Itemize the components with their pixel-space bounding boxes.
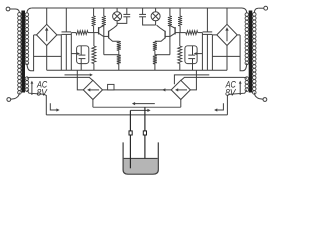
svg-text:8V: 8V (37, 88, 48, 98)
wire between R5 R6 (118, 51, 120, 55)
arrow current (ac8v right) (174, 75, 209, 84)
resistor R5' (emitter upper) (153, 41, 157, 50)
capacitor C1 top lead (65, 8, 67, 32)
wire AC8V feed (27, 77, 93, 80)
resistor R6 (emitter lower) (117, 55, 121, 64)
transformer T2 primary winding (253, 13, 256, 17)
wire B1 right corner (57, 35, 61, 70)
transistor Q1 base lead (94, 32, 99, 34)
wire B3 bottom corner (226, 46, 228, 71)
transistor Q4 emitter (155, 38, 165, 41)
transformer T1 primary winding (18, 13, 22, 17)
resistor R6' (emitter lower) (153, 55, 157, 64)
resistor R4 top lead (93, 33, 95, 46)
transformer T2 secondary winding (main) (245, 13, 249, 16)
capacitor C2 top lead (126, 8, 128, 14)
arrowhead on link (162, 88, 165, 91)
capacitor C3 bottom lead (206, 34, 208, 70)
transformer T2 core (249, 11, 253, 93)
rectifier B2 (diamond) (83, 80, 102, 99)
rectifier B3 (diamond) (217, 24, 237, 45)
wire top bus (32, 7, 242, 9)
wire AC8V bottom lead (right) (227, 90, 246, 115)
arrow inside B2 (89, 89, 99, 91)
resistor R5 (emitter upper) (117, 41, 121, 50)
wire emitter tap (104, 54, 119, 56)
capacitor C2 bottom lead (117, 17, 127, 24)
arrow current (left staircase) (50, 103, 56, 110)
wire B1 left corner (34, 34, 37, 36)
wire B2-B2' link (103, 89, 172, 91)
transistor Q1 collector (99, 25, 104, 28)
lamp L1 (113, 12, 122, 21)
capacitor C3 (203, 31, 213, 33)
wire B4 bottom to rail1 (180, 100, 182, 108)
wire R1' bottom to node (179, 26, 181, 33)
wire AC8V bottom lead to rail (27, 90, 46, 115)
transistor Q2 base lead (104, 35, 109, 37)
resistor R4 (92, 46, 96, 64)
wire R2 node vertical (103, 26, 105, 55)
wire primary top lead (right) (254, 8, 258, 13)
wire secondary top to top bus (27, 8, 32, 13)
electrode left contact (129, 131, 132, 135)
fuse on link (108, 84, 114, 90)
tank (vessel) (123, 142, 158, 174)
resistor R1 (92, 16, 96, 26)
transistor Q3 collector (170, 25, 175, 28)
wire rail1 (93, 106, 181, 108)
terminal input bottom-right (263, 98, 267, 102)
wire B1 top to bus (46, 8, 48, 24)
arrow current rail2 (130, 109, 148, 111)
transistor Q1 emitter (99, 33, 104, 36)
transistor Q3 base bar (174, 27, 176, 34)
resistor R2 top lead (103, 8, 105, 16)
capacitor C4 (139, 13, 146, 15)
arrow AC voltage (left) (31, 83, 33, 95)
resistor R2' top lead (169, 8, 171, 16)
resistor R6 bottom lead (118, 64, 120, 70)
trimmer plates (79, 54, 86, 56)
resistor R1' (178, 16, 182, 26)
wire B1 strap (34, 55, 62, 57)
wire secondary top to bus (right) (242, 8, 247, 13)
wire primary top lead (16, 9, 20, 13)
trimmer wiper arrow' (196, 53, 203, 55)
wire B3 top to bus (226, 8, 228, 24)
lamp L2 bottom lead (155, 21, 157, 25)
capacitor C1 bottom lead (65, 34, 67, 70)
transistor Q2 emitter (109, 38, 119, 41)
transistor Q4 base bar (164, 31, 166, 39)
trimmer wiper arrow (71, 53, 78, 55)
tank liquid (124, 159, 158, 174)
resistor R4 bottom lead (93, 64, 95, 71)
transformer T1 secondary winding (main) (25, 13, 29, 16)
lamp L2 (151, 12, 160, 21)
trimmer plates' (188, 54, 195, 56)
resistor R4' bottom lead (179, 64, 181, 71)
wire secondary bottom lead (right) (240, 35, 247, 71)
wire electrode left (129, 110, 131, 168)
resistor R3' (base, horizontal) (180, 32, 186, 34)
transistor Q1 base bar (98, 27, 100, 34)
transformer T1 winding AC 8V (25, 77, 29, 81)
transistor Q4 base lead (165, 35, 170, 37)
resistor R2' (168, 16, 172, 26)
wire rail2 (46, 114, 227, 116)
terminal input bottom-left (7, 98, 11, 102)
terminal input top-left (6, 7, 10, 11)
capacitor C4 top lead (142, 8, 144, 14)
transistor Q4 collector (157, 25, 166, 31)
wire B3 right corner (237, 34, 240, 36)
trimmer box' (rounded enclosure) (185, 46, 197, 64)
transistor Q3 base lead (175, 32, 180, 34)
wire B4 right corner riser (190, 70, 196, 90)
capacitor C4 bottom lead (143, 17, 156, 25)
wire secondary bottom lead (27, 35, 34, 71)
electrode right contact (143, 131, 146, 135)
wire R2' node vertical (169, 26, 171, 55)
wire emitter tap' (155, 54, 170, 56)
wire B2 bottom to rail1 (92, 100, 94, 108)
lamp L2 top lead (155, 8, 157, 12)
rectifier B1 (diamond) (37, 24, 57, 45)
resistor R2 (102, 16, 106, 26)
wire mid rail (47, 69, 227, 71)
arrow current (ac8v left) (65, 74, 91, 76)
capacitor C2 (123, 13, 130, 15)
resistor R4' (178, 46, 182, 64)
wire R3 left riser (70, 33, 72, 71)
transistor Q3 emitter (170, 33, 175, 36)
terminal input top-right (264, 6, 268, 10)
arrow inside B3 (226, 30, 228, 42)
capacitor C3 top lead (206, 8, 208, 32)
wire B1 bottom corner (46, 46, 48, 71)
transistor Q2 base bar (108, 31, 110, 39)
wire R3' right riser (201, 33, 203, 71)
svg-text:8V: 8V (225, 88, 236, 98)
resistor R3 (base, horizontal) (71, 32, 76, 34)
arrow current rail1 (134, 103, 155, 105)
arrow inside B1 (46, 30, 48, 42)
arrow AC voltage (right) (239, 83, 241, 95)
lamp L1 bottom lead (116, 21, 118, 25)
lamp L1 top lead (116, 8, 118, 12)
wire R1 bottom to node (93, 26, 95, 33)
trimmer box (rounded enclosure) (77, 46, 89, 64)
trimmer bottom lead (80, 59, 82, 71)
trimmer bottom lead' (192, 59, 194, 71)
resistor R1 top lead (93, 8, 95, 16)
arrow inside B4 (177, 89, 187, 91)
wire between R5' R6' (154, 51, 156, 55)
wire B2 left corner riser (77, 70, 83, 90)
transformer T1 core (21, 11, 25, 93)
capacitor C1 (62, 31, 72, 33)
rectifier B4 (diamond) (171, 80, 190, 99)
wire primary bottom lead (right) (254, 93, 263, 100)
resistor R1' top lead (179, 8, 181, 16)
transformer T2 winding AC 8V (245, 77, 249, 81)
resistor R4' top lead (179, 33, 181, 46)
wire primary bottom lead (11, 93, 20, 100)
arrow current (right staircase) (217, 103, 223, 110)
liquid surface (124, 157, 158, 159)
wire B3 left corner (212, 35, 216, 70)
resistor R6' bottom lead (154, 64, 156, 70)
wire AC8V feed (right) (181, 77, 247, 80)
wire electrode right (144, 107, 146, 158)
transistor Q2 collector (109, 25, 118, 31)
wire B3 strap (212, 55, 240, 57)
